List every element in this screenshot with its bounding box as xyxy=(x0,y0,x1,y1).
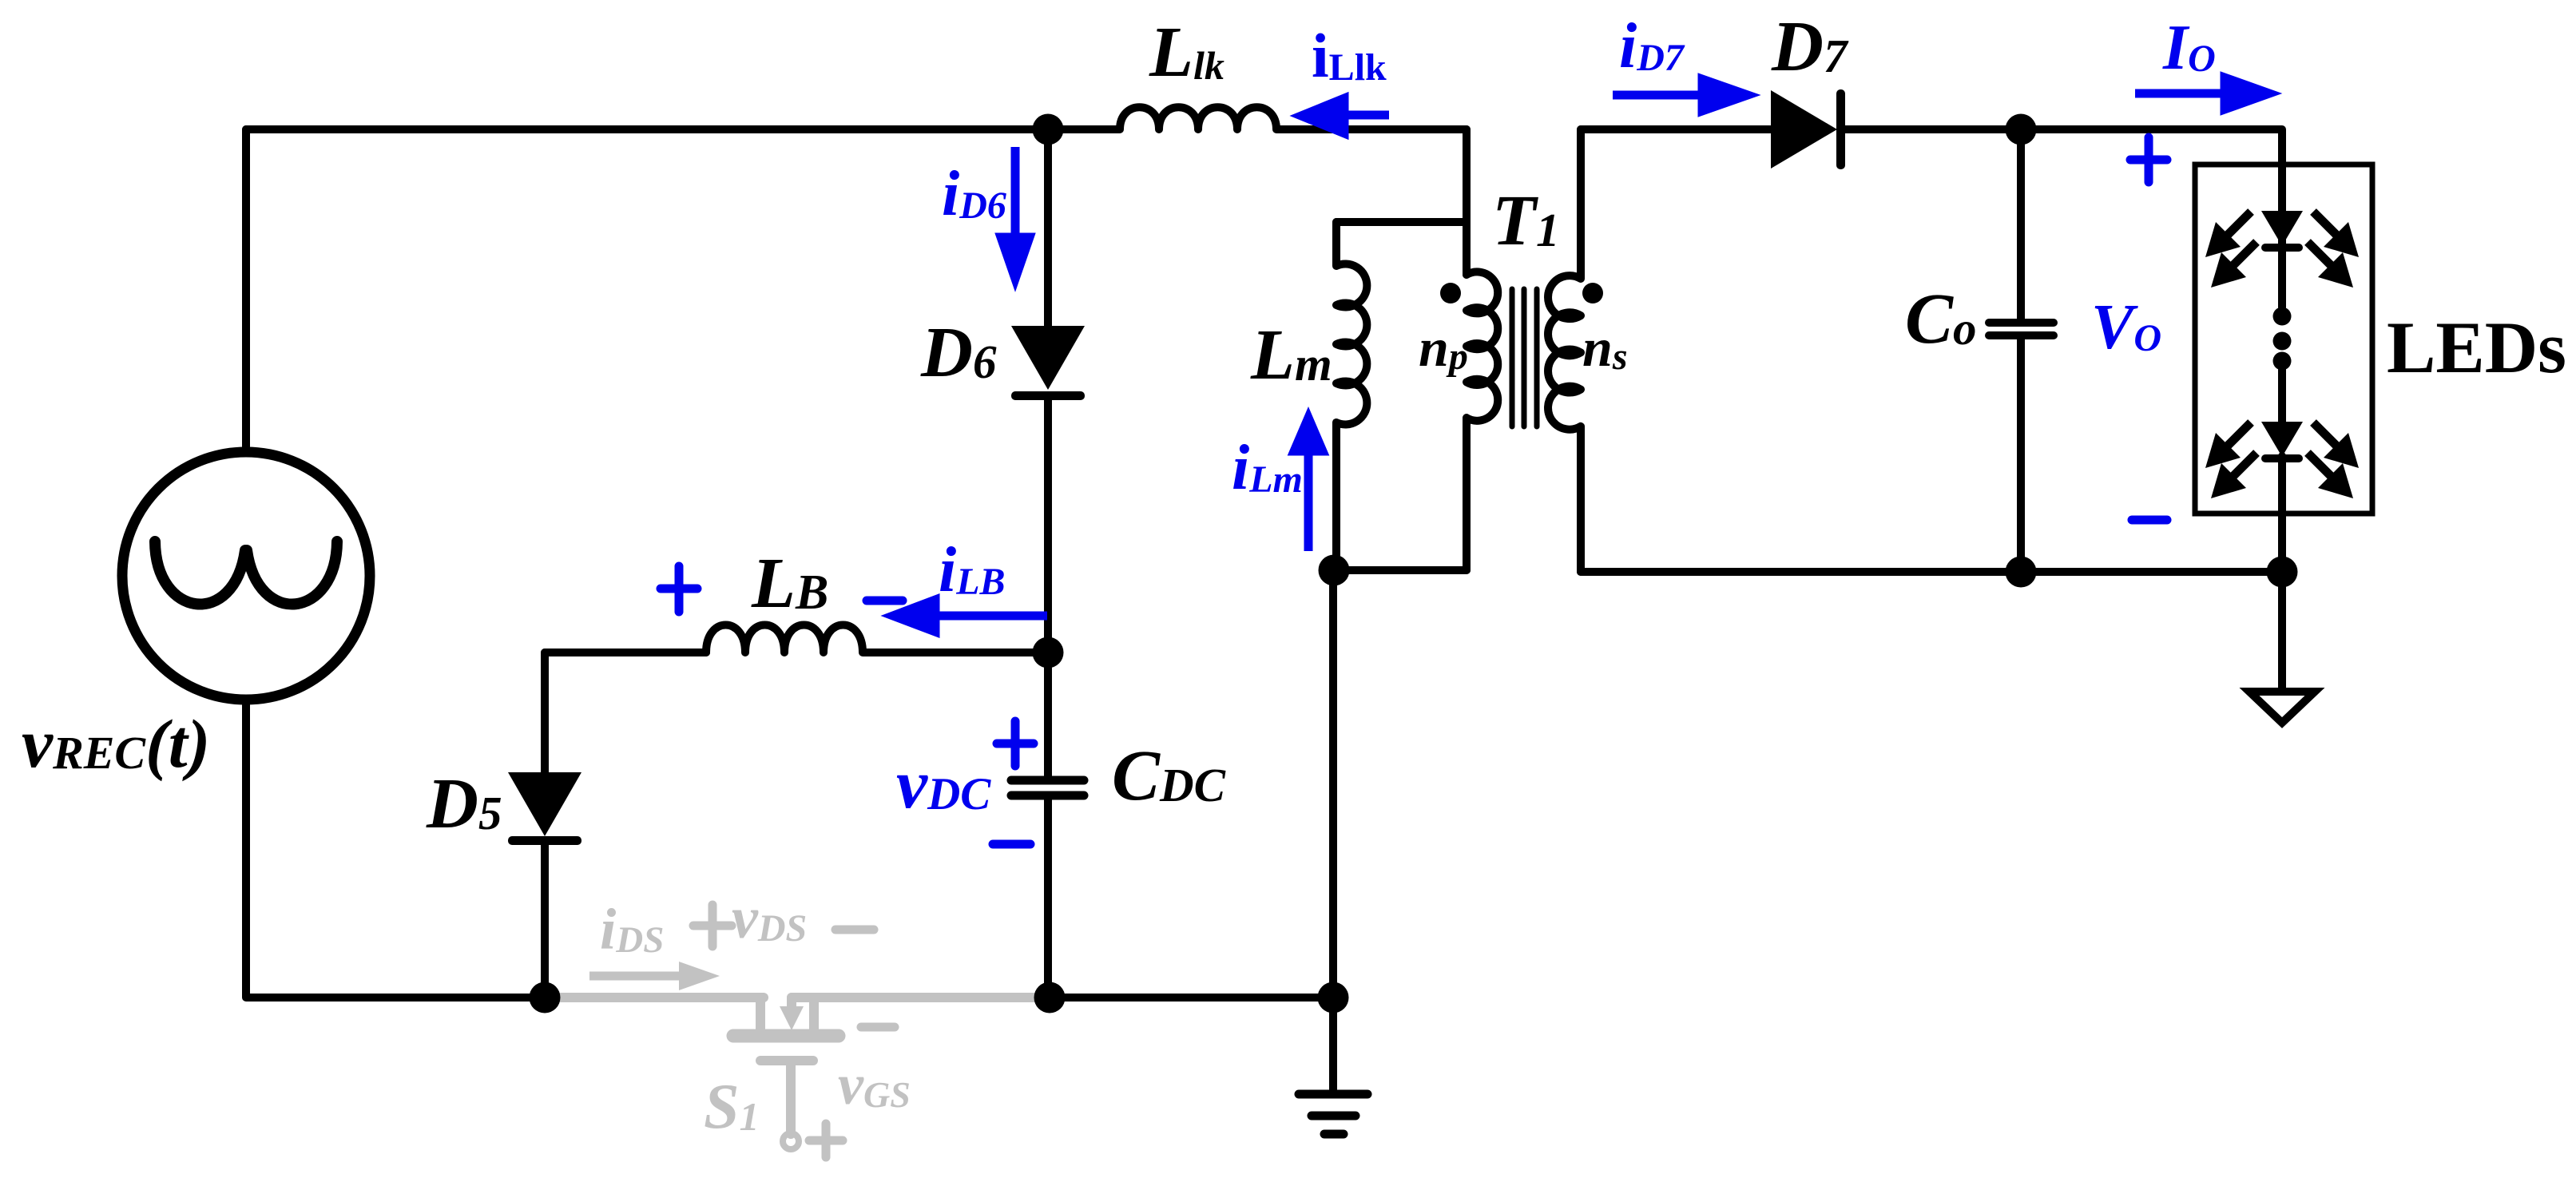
inductor Llk xyxy=(1048,107,1467,129)
junction node Co bottom xyxy=(2006,557,2037,588)
transformer polarity dot np xyxy=(1440,283,1461,303)
inductor LB xyxy=(706,625,1048,653)
wire D6 branch vertical xyxy=(1044,129,1052,326)
wire Co branch xyxy=(2017,129,2025,572)
minus vDS xyxy=(836,926,874,934)
ground LED (open triangle) xyxy=(2249,692,2315,723)
capacitor CDC plates xyxy=(1011,780,1084,795)
minus LB xyxy=(867,597,903,605)
svg-text:LEDs: LEDs xyxy=(2387,307,2566,388)
iLlk arrow xyxy=(1343,111,1389,120)
diode D7 xyxy=(1771,89,1845,169)
capacitor Co plates xyxy=(1989,323,2054,335)
junction node Llk/D6 xyxy=(1033,114,1064,145)
MOSFET gate lead xyxy=(786,1065,796,1134)
wire CDC top xyxy=(1044,652,1052,780)
junction node primary ground xyxy=(1318,982,1349,1013)
diode D6 xyxy=(1011,326,1085,400)
inductor Lm xyxy=(1336,222,1367,570)
wire Lm vertical down to bottom rail xyxy=(1329,570,1337,998)
gray plus/minus signs xyxy=(693,905,895,1157)
minus CDC xyxy=(993,840,1030,849)
iLB arrow xyxy=(934,612,1047,621)
ground middle xyxy=(1299,1094,1367,1134)
iDS gray arrow xyxy=(589,962,720,990)
Io arrow xyxy=(2135,89,2226,98)
blue plus/minus signs xyxy=(661,137,2167,844)
MOSFET drain stub xyxy=(756,998,765,1029)
junction node LED bottom xyxy=(2267,557,2298,588)
wire top-left horizontal xyxy=(246,125,1048,133)
source vREC circle xyxy=(122,452,370,700)
wire Lm top xyxy=(1336,218,1467,226)
transformer np winding xyxy=(1467,272,1498,570)
junction node Lm/np bottom xyxy=(1319,555,1350,586)
minus vGS top xyxy=(861,1023,895,1032)
transformer polarity dot ns xyxy=(1582,283,1603,303)
wire D6 to LB junction xyxy=(1044,396,1052,656)
source omega symbol xyxy=(155,541,337,605)
wire CDC bottom xyxy=(1044,795,1052,998)
iD6 arrow xyxy=(1011,147,1020,238)
blue arrows xyxy=(893,77,2269,632)
plus Vo xyxy=(2130,137,2167,182)
plus vDS xyxy=(693,905,732,946)
wire D5 to bottom rail xyxy=(541,841,549,998)
wire ground stem middle xyxy=(1329,998,1337,1094)
LEDs box xyxy=(2195,165,2372,514)
wire bottom rail CDC to ground stem xyxy=(1050,994,1333,1002)
LED 1 xyxy=(2261,211,2303,252)
LED 1 light arrows xyxy=(2205,212,2359,288)
LED 2 light arrows xyxy=(2205,422,2359,498)
wire gray source to CDC node xyxy=(792,993,1037,1002)
wire gray drain xyxy=(559,993,764,1002)
minus Vo xyxy=(2132,516,2167,525)
wire D7 to output node xyxy=(1840,129,2282,211)
LED 2 xyxy=(2261,422,2303,462)
wire np riser top xyxy=(1463,129,1471,275)
MOSFET S1 (gray) xyxy=(559,998,1037,1134)
wire primary bottom xyxy=(1334,566,1467,574)
wire D5 vertical xyxy=(541,652,549,772)
junction node LB/CDC xyxy=(1033,637,1064,668)
MOSFET source arrow stub xyxy=(787,998,796,1006)
MOSFET gate terminal circle xyxy=(783,1133,799,1149)
wire secondary bottom rail xyxy=(1581,568,2282,576)
wire LED string xyxy=(2278,211,2286,572)
wire LB rail xyxy=(545,649,706,656)
wire secondary top to D7 xyxy=(1581,125,1771,133)
junction node CDC/S1 source xyxy=(1034,982,1066,1013)
plus LB xyxy=(661,566,697,612)
iD7 arrow xyxy=(1613,91,1704,100)
junction node D5/source/S1 drain xyxy=(530,982,561,1013)
plus vGS bottom xyxy=(809,1124,843,1157)
iLm arrow xyxy=(1304,453,1313,551)
wire LED ground stem xyxy=(2278,572,2286,692)
LED string dots xyxy=(2273,307,2292,371)
transformer core xyxy=(1512,289,1537,426)
MOSFET gate bar xyxy=(760,1056,813,1065)
MOSFET body stub xyxy=(809,998,819,1029)
wire source bottom to bottom rail xyxy=(246,700,545,998)
wire left vertical to source top xyxy=(242,129,250,452)
transformer ns winding xyxy=(1548,129,1581,572)
junction node Co top xyxy=(2006,114,2037,145)
diode D5 xyxy=(508,772,581,845)
MOSFET channel xyxy=(733,1029,839,1043)
MOSFET source arrowhead xyxy=(780,1006,804,1030)
plus CDC xyxy=(997,721,1034,766)
